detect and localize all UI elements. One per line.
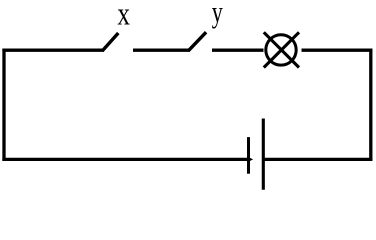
wire left vertical xyxy=(2,49,5,161)
wire top-left segment (left corner to switch x) xyxy=(2,49,104,52)
wire lamp to top-right corner xyxy=(302,49,373,52)
battery short plate (negative terminal) xyxy=(247,137,250,174)
wire battery to bottom-right corner xyxy=(263,158,372,161)
wire between switch x and switch y xyxy=(133,49,190,52)
switch x blade xyxy=(102,33,118,51)
wire bottom-left segment (left corner to battery) xyxy=(2,158,248,161)
battery long plate (positive terminal) xyxy=(262,119,265,190)
switch y blade xyxy=(188,32,206,51)
wire right vertical xyxy=(369,49,372,161)
wire between switch y and lamp xyxy=(212,49,264,52)
lamp L1 circle xyxy=(266,35,296,65)
lamp L1 cross line 1 xyxy=(264,32,299,67)
lamp L1 cross line 2 xyxy=(264,32,299,67)
battery wire arrow tip at short plate xyxy=(249,157,254,162)
svg-text:x: x xyxy=(117,0,130,33)
svg-text:y: y xyxy=(212,0,224,29)
